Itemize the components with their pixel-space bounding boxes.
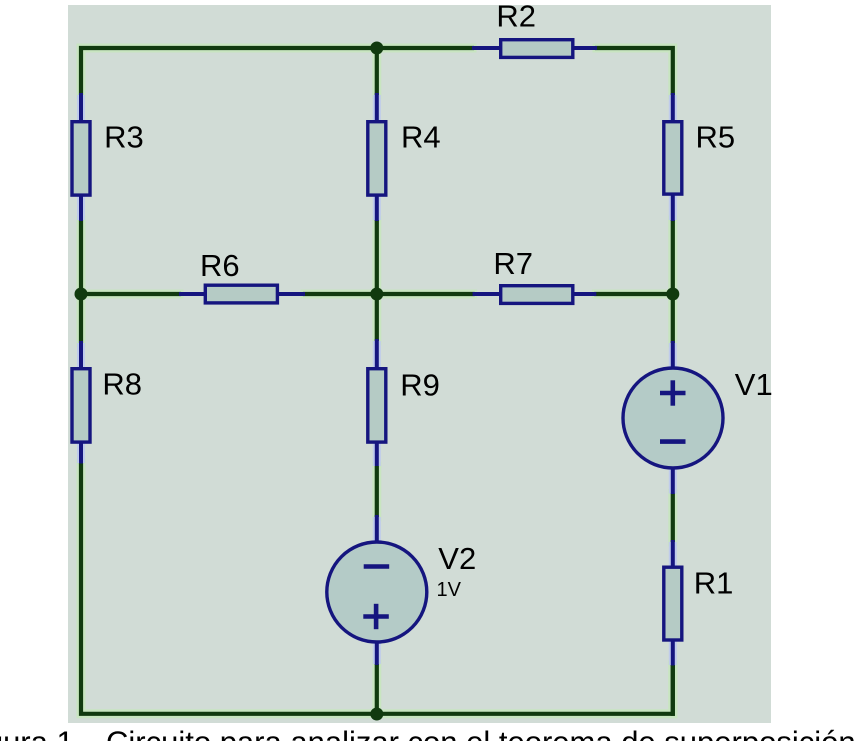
svg-text:R6: R6 — [200, 248, 240, 283]
svg-text:R8: R8 — [102, 367, 142, 402]
svg-text:R9: R9 — [400, 368, 440, 403]
svg-text:R5: R5 — [696, 120, 736, 155]
svg-text:R4: R4 — [401, 119, 441, 154]
svg-text:1V: 1V — [437, 579, 462, 601]
svg-text:Circuito para analizar con el: Circuito para analizar con el teorema de… — [106, 725, 856, 741]
svg-text:V1: V1 — [735, 367, 773, 402]
svg-text:R3: R3 — [104, 120, 144, 155]
svg-text:R7: R7 — [493, 246, 533, 281]
svg-text:R1: R1 — [694, 565, 734, 600]
svg-text:R2: R2 — [496, 0, 536, 34]
svg-text:V2: V2 — [438, 541, 476, 576]
svg-text:Figura 1: Figura 1 — [0, 725, 74, 741]
